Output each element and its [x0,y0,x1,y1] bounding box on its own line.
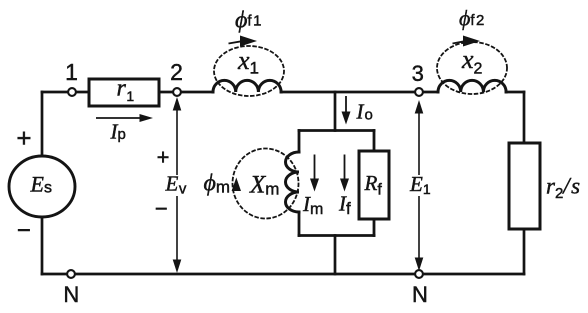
wire magnetizing loop right upper [373,131,376,152]
svg-text:N: N [412,282,428,307]
label white backing for Ev [164,175,191,196]
node 1 [68,88,76,96]
node 3 [415,88,423,96]
inductor Xm [286,152,300,212]
label white backing for E1 [404,175,432,196]
resistor Rf [359,151,389,219]
node 2 [173,88,181,96]
svg-text:−: − [155,196,168,221]
wire top rail segment node1 to coil x1 [42,91,213,94]
svg-text:1: 1 [65,59,78,85]
arrow phi_f2 (flux direction) [453,36,481,47]
wire magnetizing branch stub top [334,92,337,131]
svg-text:2: 2 [170,59,183,85]
arrow Ev (double headed) [173,97,182,273]
arrow Im [310,155,319,192]
arrow Io [342,96,351,125]
arrow phi_m (flux direction) [232,178,241,192]
svg-text:N: N [63,282,79,307]
svg-text:+: + [16,123,31,153]
inductor x2 [438,80,506,92]
wire top rail segment after x2 to right corner [506,91,524,94]
wire magnetizing loop left upper [298,131,301,153]
wire magnetizing loop bottom [299,234,374,237]
wire magnetizing branch stub bottom [334,236,337,275]
arrow If [340,155,349,192]
flux loop phi_f1 dashed ellipse [214,46,284,96]
wire right vertical (rotor branch bottom) [523,229,526,274]
resistor r1 [89,79,159,106]
svg-text:−: − [17,217,31,244]
svg-text:+: + [157,145,170,170]
inductor x1 [213,80,281,92]
arrow phi_f1 (flux direction) [229,36,258,47]
wire top rail segment x1 to x2 [281,91,438,94]
wire magnetizing loop left lower [298,212,301,236]
flux loop phi_f2 dashed ellipse [437,42,507,94]
wire magnetizing loop right lower [373,219,376,236]
wire magnetizing loop top [299,129,374,132]
svg-text:r2/s: r2/s [546,173,582,202]
svg-text:3: 3 [412,61,424,86]
node N right [415,270,423,278]
wire right vertical (rotor branch top) [523,92,526,143]
wire bottom rail [42,273,524,276]
arrow E1 (double headed) [415,100,424,271]
flux loop phi_m dashed circle [233,149,299,219]
wire left vertical (source branch top) [41,92,44,156]
node N left [67,270,75,278]
resistor r2/s [509,143,540,229]
arrow Ip [96,114,153,122]
wire left vertical (source branch bottom) [41,217,44,274]
voltage source Es [9,156,75,217]
